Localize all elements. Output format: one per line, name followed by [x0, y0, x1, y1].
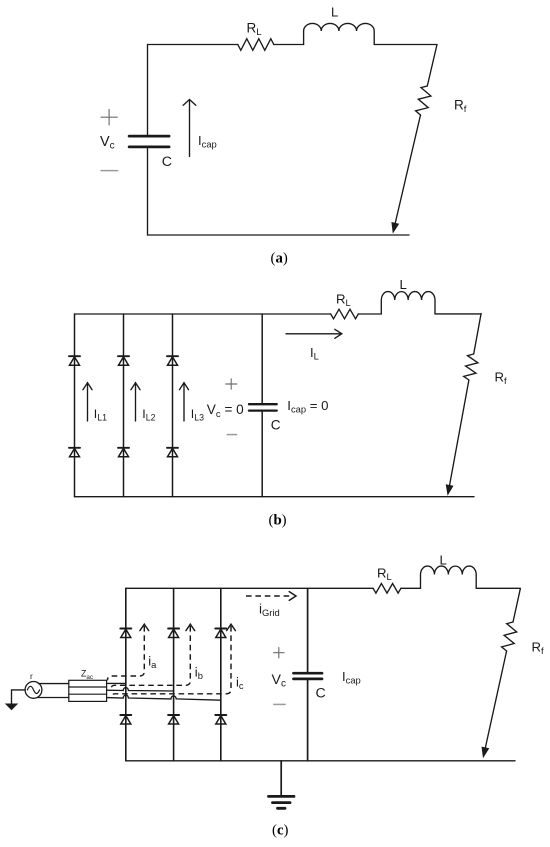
- svg-text:L: L: [440, 553, 447, 568]
- svg-text:(c): (c): [272, 823, 289, 839]
- svg-text:C: C: [271, 417, 281, 432]
- svg-text:(a): (a): [271, 251, 288, 267]
- svg-text:L: L: [400, 277, 407, 292]
- svg-text:r: r: [30, 671, 33, 681]
- svg-text:C: C: [162, 154, 172, 170]
- svg-text:L: L: [331, 4, 338, 19]
- svg-text:C: C: [316, 685, 326, 701]
- svg-text:(b): (b): [269, 513, 287, 529]
- svg-text:Vc = 0: Vc = 0: [207, 402, 244, 420]
